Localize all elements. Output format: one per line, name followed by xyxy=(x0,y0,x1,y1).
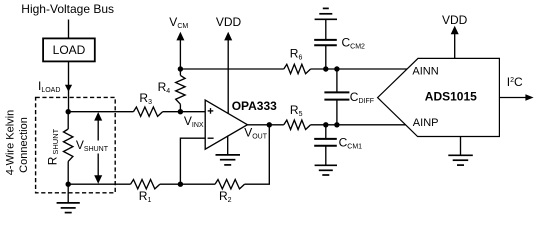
wire shunt bottom to R1 xyxy=(68,183,130,185)
resistor R2 xyxy=(215,180,245,205)
wire bus to LOAD xyxy=(68,20,70,39)
dashed box 4-wire Kelvin xyxy=(36,97,116,192)
wire - input L xyxy=(180,138,205,184)
wire LOAD to shunt top node xyxy=(68,61,70,111)
ground op-amp xyxy=(216,136,241,165)
wire R2 feedback to VOUT xyxy=(245,125,270,184)
resistor R4 xyxy=(158,75,186,111)
node inverting junction xyxy=(178,182,183,187)
wire R3 to op-amp + input xyxy=(163,111,206,113)
ground CCM1 xyxy=(315,165,337,175)
label 4-Wire Kelvin Connection (rotated) xyxy=(5,110,30,175)
wire R1 to junction xyxy=(160,183,181,185)
load block LOAD xyxy=(43,38,95,61)
resistor R6 xyxy=(284,46,311,73)
svg-text:VDD: VDD xyxy=(216,15,242,29)
supply arrow VDD (op-amp) xyxy=(216,15,242,114)
current arrow ILOAD xyxy=(38,79,72,94)
node AINP/CDIFF xyxy=(334,122,339,127)
ground shunt xyxy=(57,184,80,212)
capacitor CCM1 xyxy=(314,125,362,166)
wire R5 to AINP xyxy=(311,124,406,126)
wire junction to R2 xyxy=(180,183,215,185)
node AINP/CCM1 xyxy=(323,122,328,127)
ground inverted (CCM2) xyxy=(315,8,337,19)
wire op-amp output xyxy=(247,124,283,126)
svg-text:LOAD: LOAD xyxy=(53,43,86,57)
svg-text:ADS1015: ADS1015 xyxy=(425,89,477,103)
node AINN/CCM2 xyxy=(323,66,328,71)
resistor RSHUNT xyxy=(46,112,73,185)
node VOUT xyxy=(244,122,272,140)
svg-text:4-Wire Kelvin: 4-Wire Kelvin xyxy=(5,110,17,175)
wire R6 to AINN xyxy=(311,68,407,70)
ground ADS xyxy=(448,137,473,166)
node shunt top xyxy=(66,109,71,114)
resistor R5 xyxy=(284,103,311,130)
capacitor CDIFF xyxy=(324,69,374,125)
ADC U2 ADS1015 xyxy=(378,58,500,136)
node AINN/CDIFF xyxy=(334,66,339,71)
node VCM / R4 top xyxy=(178,66,183,71)
svg-text:High-Voltage Bus: High-Voltage Bus xyxy=(21,2,114,16)
supply arrow VDD (ADS) xyxy=(442,13,468,59)
node shunt bottom xyxy=(66,182,71,187)
supply arrow VCM xyxy=(169,15,188,75)
wire VCM to R6 xyxy=(180,68,283,70)
svg-text:VDD: VDD xyxy=(442,13,468,27)
node R4 / +input xyxy=(178,109,183,114)
svg-text:OPA333: OPA333 xyxy=(232,99,277,113)
bus arrow I2C xyxy=(499,75,533,101)
svg-text:AINN: AINN xyxy=(412,65,438,77)
svg-text:I2C: I2C xyxy=(507,75,523,89)
svg-text:Connection: Connection xyxy=(18,117,30,173)
resistor R3 xyxy=(133,91,162,117)
resistor R1 xyxy=(131,180,160,205)
wire shunt top to R3 xyxy=(68,111,133,113)
op-amp U1 OPA333 xyxy=(205,99,277,149)
svg-text:AINP: AINP xyxy=(413,117,439,129)
capacitor CCM2 xyxy=(314,19,365,69)
probe arrow VSHUNT xyxy=(76,112,109,184)
